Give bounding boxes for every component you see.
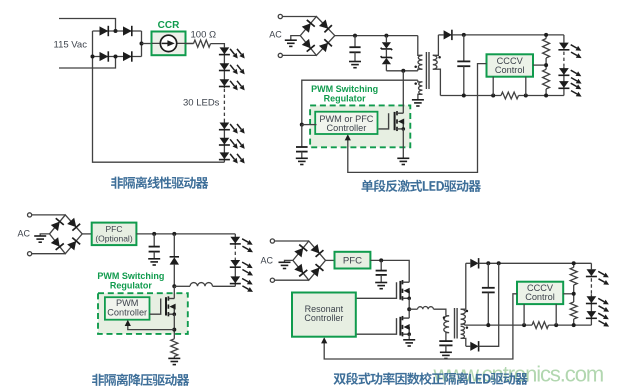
caption circuit 3 [92, 374, 189, 386]
junction bottom diode riser [497, 261, 501, 265]
svg-text:PFC: PFC [106, 224, 123, 234]
divider resistor upper c4 [573, 263, 575, 267]
ground cap c3 [148, 259, 160, 265]
resonant inductor L2 [418, 307, 434, 310]
svg-text:(Optional): (Optional) [95, 233, 132, 243]
sense resistor R2 upper [545, 35, 547, 39]
junction feedback c3 [172, 328, 176, 332]
rectifier diode bottom c4 [466, 345, 471, 347]
Q1 drain lead [402, 71, 404, 113]
bridge rectifier BR4 [293, 241, 326, 280]
rectifier diode top c4 [466, 262, 471, 264]
feedback arrowhead c4 [321, 337, 327, 343]
ground sense resistor c3 [168, 358, 180, 364]
T2 secondary lower dot [466, 326, 469, 329]
circuit 1: non-isolated linear driver - AC line top wire [59, 19, 116, 32]
wire inductor to LED string [213, 285, 236, 287]
PWM or PFC Controller box [315, 112, 377, 134]
junction out cap c4 [486, 261, 490, 265]
bridge diode D3 [100, 52, 109, 61]
transformer T2 primary winding [446, 315, 449, 317]
AC terminal bottom c3 [28, 252, 32, 256]
wire AC top c3 [32, 214, 66, 216]
bridge diode D4 [123, 52, 132, 61]
LED 5 [220, 138, 230, 145]
feedback arrowhead c3 [125, 320, 131, 326]
T1 primary polarity dot [414, 66, 417, 69]
junction half-bridge mid [407, 307, 411, 311]
ground bridge c4 [279, 262, 291, 268]
ground bridge c3 [34, 236, 46, 242]
CCCV bottom pins [492, 77, 494, 96]
circuit 4: two-stage PFC - AC terminal top [270, 239, 274, 243]
svg-text:AC: AC [261, 256, 274, 266]
LED 2-3 [559, 81, 569, 88]
svg-text:30 LEDs: 30 LEDs [183, 98, 220, 109]
feedback arrowhead [345, 134, 351, 140]
svg-text:Regulator: Regulator [324, 94, 367, 104]
CCCV Control box c4 [517, 282, 563, 304]
wire to inductor [174, 285, 190, 287]
output diode D5 [438, 34, 443, 36]
junction divider top [544, 33, 548, 37]
LED 1 [220, 47, 230, 54]
junction divider top c4 [572, 261, 576, 265]
Q3 source lead [173, 314, 175, 339]
junction input cap [353, 34, 357, 38]
wire inductor to T2 primary [434, 309, 446, 316]
half-bridge mid lead [408, 298, 410, 318]
top rail c4 [479, 262, 592, 264]
T2 secondary upper dot [466, 310, 469, 313]
junction divider mid [544, 63, 548, 67]
bridge bottom branch wire [93, 56, 142, 58]
sense resistor R3 lower [543, 69, 550, 89]
LED 2-1 [559, 43, 569, 50]
wire vcc to controller [302, 124, 317, 126]
junction vcc [300, 123, 304, 127]
svg-text:Control: Control [525, 292, 555, 302]
ground aux winding [412, 100, 424, 106]
ground resonant cap [440, 352, 452, 358]
wire AC top to bridge [282, 16, 316, 18]
svg-text:AC: AC [18, 228, 31, 238]
LED 6 [220, 152, 230, 159]
CCCV bottom pins c4 [523, 304, 525, 325]
transformer T1 primary winding [418, 36, 423, 56]
ground bus cap c4 [375, 283, 387, 289]
PFC box c4 [335, 252, 371, 269]
LED string lower segment wire [223, 120, 225, 162]
MOSFET Q5 low side [356, 318, 397, 334]
svg-text:Regulator: Regulator [110, 281, 153, 291]
ground Q5 [403, 340, 415, 346]
LED string c3 wire upper [234, 234, 236, 245]
MOSFET Q1 [379, 113, 389, 129]
ground input cap [349, 62, 361, 68]
wire bridge output to CCR [142, 43, 152, 45]
PWM Controller box [105, 297, 150, 320]
rail PFC to half-bridge [370, 260, 409, 282]
feedback wire c4 [324, 294, 517, 359]
vcc capacitor [301, 125, 303, 147]
circuit 1: AC line bottom wire [59, 57, 116, 69]
bottom diode riser wire [479, 263, 499, 346]
LED 2-2 [559, 68, 569, 75]
wire AC bottom c4 [275, 279, 309, 281]
feedback wire c3 [128, 324, 175, 329]
wire bridge to PFC box [82, 233, 92, 235]
junction diode inductor [172, 284, 176, 288]
dashed wire 30 LEDs [223, 89, 225, 120]
junction dots bottom rail [462, 94, 466, 98]
T2 primary polarity dot [443, 316, 446, 319]
svg-text:Controller: Controller [326, 123, 366, 133]
LED 2 [220, 63, 230, 70]
svg-text:CCR: CCR [158, 20, 180, 31]
wire bridge to ground c3 [40, 234, 49, 236]
input capacitor C1 [354, 36, 356, 47]
secondary bottom rail [440, 95, 501, 97]
LED 4-3 [587, 311, 597, 318]
LED string c4 upper wire [590, 263, 592, 269]
bridge diode D2 [123, 26, 132, 35]
junction MOSFET drain [401, 69, 405, 73]
dashed LED wire c4 [590, 278, 592, 294]
wire AC top c4 [275, 240, 309, 242]
LED string c4 lower wire [590, 294, 592, 325]
svg-text:100 Ω: 100 Ω [191, 30, 217, 41]
dashed LED wire [563, 52, 565, 67]
MOSFET Q4 high side [356, 282, 397, 298]
PWM dashed regulator box [310, 105, 410, 147]
bridge diode D1 [100, 26, 109, 35]
LED 4-1 [587, 269, 597, 276]
feedback wire CCCV to controller [348, 64, 487, 173]
PFC Optional box [92, 223, 137, 246]
output capacitor c4 [487, 263, 489, 287]
LED 4 [220, 123, 230, 130]
junction cap c3 [152, 232, 156, 236]
T2 secondary lower winding [461, 326, 465, 338]
inductor L1 [190, 283, 213, 287]
T2 secondary upper winding [461, 263, 466, 309]
wire bridge to ground c4 [285, 260, 293, 262]
resonant inductor wire [409, 308, 417, 310]
T1 secondary winding [433, 35, 439, 55]
CCCV Control box [487, 54, 534, 76]
Q3 drain lead [173, 286, 175, 298]
LED string upper segment wire [223, 47, 225, 88]
caption circuit 4 [333, 372, 527, 385]
ground MOSFET Q1 [397, 158, 409, 164]
T2 core [454, 308, 456, 339]
junction dots bridge [114, 29, 118, 33]
LED 3-3 [230, 276, 240, 283]
shunt resistor R4 [501, 92, 519, 99]
caption circuit 2 [361, 180, 481, 192]
svg-text:Controller: Controller [304, 313, 343, 323]
T1 auxiliary winding [418, 80, 423, 82]
filter capacitor c3 [153, 234, 155, 247]
bottom rail c4 [465, 324, 533, 326]
wire clamp to primary bottom [386, 70, 417, 72]
bridge top branch wire [93, 30, 142, 32]
svg-text:PFC: PFC [343, 256, 362, 267]
Resonant Controller box [292, 293, 356, 337]
wire resistor to LED string [211, 44, 225, 48]
sense resistor c3 [171, 339, 178, 357]
dashed LED wire c3 [234, 246, 236, 259]
PWM dashed box c3 [98, 293, 188, 334]
AC terminal bottom [278, 53, 282, 57]
svg-text:PWM: PWM [116, 298, 138, 308]
resistor 100 ohm [194, 40, 211, 47]
svg-text:Controller: Controller [107, 307, 147, 317]
wire bridge to PFC c4 [326, 259, 335, 261]
LED 3-2 [230, 260, 240, 267]
T1 aux polarity dot [414, 82, 417, 85]
wire AC bottom to bridge [282, 54, 316, 56]
clamp zener upper [385, 36, 387, 43]
aux supply wire to controller [302, 80, 418, 124]
T1 core [425, 52, 427, 89]
secondary top rail wire [452, 34, 564, 36]
T1 secondary polarity dot [438, 56, 441, 59]
LED 3-1 [230, 237, 240, 244]
circuit 2: single-stage flyback - AC terminal top [278, 14, 282, 18]
caption circuit 1 [111, 176, 208, 188]
DC rail c3 [136, 233, 235, 235]
junction output cap top [462, 33, 466, 37]
svg-text:AC: AC [269, 30, 282, 40]
MOSFET Q3 [150, 299, 161, 315]
bus capacitor c4 [380, 260, 382, 270]
junction divider mid c4 [572, 292, 576, 296]
DC rail wire to transformer [335, 35, 418, 37]
AC terminal bottom c4 [270, 278, 274, 282]
junction freewheel diode [172, 232, 176, 236]
LED string lower wire [563, 66, 565, 95]
svg-text:115 Vac: 115 Vac [54, 39, 88, 50]
wire CCCV to resistor divider [533, 64, 546, 66]
CCR box [152, 32, 186, 56]
shunt resistor c4 [532, 322, 549, 329]
left vertical wire and bottom rail [93, 31, 225, 162]
wire AC bottom c3 [32, 253, 66, 255]
LED 4-2 [587, 296, 597, 303]
LED string circuit 2 upper wire [563, 35, 565, 43]
junction dots bottom rail c4 [486, 323, 490, 327]
wire CCCV to divider c4 [563, 293, 574, 295]
wire CCR to resistor [186, 43, 194, 45]
junction clamp [384, 34, 388, 38]
Q5 source lead [408, 334, 410, 339]
wire through CCR box [152, 42, 194, 44]
right vertical wire of bridge [141, 31, 143, 57]
wire bridge left corner to ground [291, 36, 301, 40]
clamp zener lower [385, 49, 387, 58]
ground vcc cap [296, 158, 308, 164]
circuit 3: non-isolated buck - AC terminal top [28, 213, 32, 217]
output capacitor C2 [463, 35, 465, 61]
junction cap c4 [379, 258, 383, 262]
ground at bridge [285, 40, 297, 46]
freewheeling diode D6 [173, 234, 175, 257]
bridge rectifier BR3 [50, 215, 83, 254]
divider resistor lower c4 [570, 302, 577, 319]
resonant capacitor [439, 341, 452, 345]
LED 3 [220, 79, 230, 86]
CCR current source symbol [160, 35, 176, 51]
LED string c3 wire lower [234, 259, 236, 287]
bridge rectifier BR2 [300, 17, 335, 56]
svg-text:Control: Control [495, 65, 525, 75]
Q1 source lead [402, 129, 404, 158]
